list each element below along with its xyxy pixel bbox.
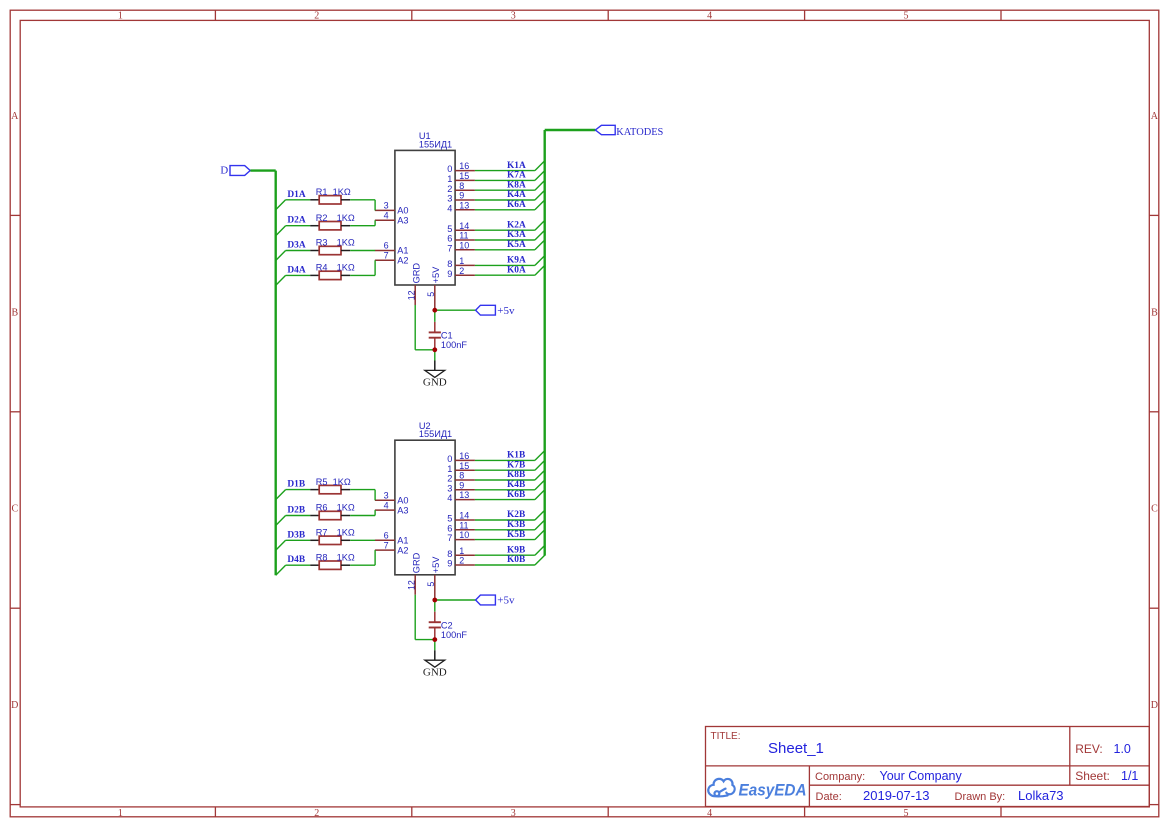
svg-text:TITLE:: TITLE: (711, 731, 741, 742)
+5v power flag near U1 (476, 305, 515, 317)
svg-text:K6B: K6B (507, 490, 525, 500)
wire net K6B to katodes bus (475, 490, 545, 500)
svg-text:3: 3 (511, 11, 516, 22)
svg-text:9: 9 (459, 480, 464, 490)
wire from R5 to pin 3 of U2 (350, 490, 375, 501)
wire net K8B to katodes bus (475, 470, 545, 480)
D bus vertical wire (275, 171, 277, 576)
svg-text:5: 5 (904, 11, 909, 22)
+5v power flag near U2 (476, 595, 515, 607)
svg-text:4: 4 (384, 211, 389, 221)
wire net K9A to katodes bus (475, 256, 545, 266)
svg-text:R7: R7 (316, 528, 328, 538)
pin 6 of U1 (A1) (375, 241, 409, 256)
junction node below capacitor C2 (432, 637, 437, 642)
svg-text:1: 1 (118, 11, 123, 22)
pin 9 of U2 (output 3), net K4B (447, 480, 475, 493)
svg-text:K6A: K6A (507, 200, 526, 210)
svg-text:D4A: D4A (287, 265, 305, 275)
svg-text:R8: R8 (316, 552, 328, 562)
junction node at +5V pin of U1 (432, 308, 437, 313)
svg-text:9: 9 (459, 191, 464, 201)
wire from R6 to pin 4 of U2 (350, 510, 375, 515)
wire net K4A to katodes bus (475, 190, 545, 200)
wire net K0B to katodes bus (475, 555, 545, 565)
pin 14 of U1 (output 5), net K2A (447, 221, 475, 234)
svg-text:5: 5 (447, 224, 452, 234)
wire from bus to resistor R1, net D1A (276, 200, 311, 210)
wire net K4B to katodes bus (475, 480, 545, 490)
svg-text:13: 13 (459, 490, 469, 500)
svg-text:K4B: K4B (507, 480, 525, 490)
pin 2 of U2 (output 9), net K0B (447, 556, 475, 569)
svg-text:1KΩ: 1KΩ (337, 238, 355, 248)
svg-text:0: 0 (447, 164, 452, 174)
svg-text:A1: A1 (397, 246, 408, 256)
svg-text:C: C (1151, 504, 1158, 515)
svg-text:155ИД1: 155ИД1 (419, 139, 452, 149)
svg-text:D: D (1151, 700, 1158, 711)
wire from bus to resistor R8, net D4B (276, 565, 311, 575)
wire GRD pin down and over to ground node (415, 595, 435, 640)
svg-text:7: 7 (447, 243, 452, 253)
pin 7 of U2 (A2) (375, 540, 409, 555)
wire net K3A to katodes bus (475, 230, 545, 240)
pin 15 of U2 (output 1), net K7B (447, 461, 475, 474)
svg-text:4: 4 (384, 500, 389, 510)
svg-text:1KΩ: 1KΩ (337, 552, 355, 562)
svg-text:8: 8 (447, 549, 452, 559)
resistor R2 1KΩ (310, 213, 355, 230)
svg-text:1KΩ: 1KΩ (337, 528, 355, 538)
svg-text:K9B: K9B (507, 545, 525, 555)
wire from bus to resistor R6, net D2B (276, 516, 311, 526)
svg-text:K1A: K1A (507, 161, 526, 171)
svg-text:K8A: K8A (507, 180, 526, 190)
wire from bus to resistor R4, net D4A (276, 275, 311, 285)
pin 14 of U2 (output 5), net K2B (447, 511, 475, 524)
wire net K1A to katodes bus (475, 161, 545, 171)
svg-text:A3: A3 (397, 505, 408, 515)
svg-text:6: 6 (447, 523, 452, 533)
svg-text:7: 7 (384, 540, 389, 550)
svg-text:1KΩ: 1KΩ (337, 263, 355, 273)
svg-text:12: 12 (406, 580, 416, 590)
pin 13 of U2 (output 4), net K6B (447, 490, 475, 503)
svg-text:16: 16 (459, 161, 469, 171)
svg-text:KATODES: KATODES (616, 127, 663, 138)
svg-text:5: 5 (447, 514, 452, 524)
svg-text:Company:: Company: (815, 771, 865, 783)
svg-text:5: 5 (426, 582, 436, 587)
svg-text:GRD: GRD (412, 263, 422, 284)
wire from bus to resistor R2, net D2A (276, 226, 311, 236)
wire from R8 to pin 7 of U2 (350, 550, 375, 565)
junction node below capacitor C1 (432, 347, 437, 352)
svg-text:A: A (1151, 111, 1159, 122)
pin 1 of U2 (output 8), net K9B (447, 546, 475, 559)
wire junction to ground symbol (434, 350, 436, 361)
svg-text:Drawn By:: Drawn By: (955, 791, 1006, 803)
svg-text:12: 12 (406, 290, 416, 300)
svg-text:R6: R6 (316, 503, 328, 513)
ground symbol GND below U2 (423, 650, 447, 678)
svg-text:K3B: K3B (507, 520, 525, 530)
svg-text:D3A: D3A (287, 241, 305, 251)
svg-text:6: 6 (384, 531, 389, 541)
IC U2 155ИД1 decoder (395, 421, 455, 575)
svg-text:K5B: K5B (507, 530, 525, 540)
svg-text:K4A: K4A (507, 190, 526, 200)
svg-text:+5v: +5v (497, 595, 515, 607)
svg-text:4: 4 (447, 203, 452, 213)
svg-text:K7B: K7B (507, 460, 525, 470)
svg-text:A0: A0 (397, 206, 408, 216)
svg-text:D1B: D1B (287, 480, 305, 490)
pin 4 of U2 (A3) (375, 500, 409, 515)
wire GRD pin down and over to ground node (415, 305, 435, 350)
svg-text:D: D (220, 165, 228, 177)
svg-text:9: 9 (447, 559, 452, 569)
pin 13 of U1 (output 4), net K6A (447, 200, 475, 213)
wire net K7B to katodes bus (475, 460, 545, 470)
wire +5V junction down to capacitor C1 (434, 310, 436, 322)
svg-text:K2B: K2B (507, 510, 525, 520)
svg-text:R4: R4 (316, 263, 328, 273)
svg-text:2: 2 (447, 184, 452, 194)
svg-text:1KΩ: 1KΩ (337, 213, 355, 223)
svg-text:D3B: D3B (287, 530, 305, 540)
pin 7 of U1 (A2) (375, 251, 409, 266)
svg-text:2: 2 (314, 808, 319, 819)
svg-text:A2: A2 (397, 545, 408, 555)
pin 10 of U2 (output 7), net K5B (447, 530, 475, 543)
svg-text:K0B: K0B (507, 555, 525, 565)
pin 5 of U2 (+5V) (426, 556, 441, 600)
svg-text:K5A: K5A (507, 240, 526, 250)
wire net K6A to katodes bus (475, 200, 545, 210)
wire from R1 to pin 3 of U1 (350, 200, 375, 211)
pin 2 of U1 (output 9), net K0A (447, 266, 475, 279)
svg-text:C: C (11, 504, 18, 515)
netflag D input port (220, 165, 250, 177)
svg-text:GND: GND (423, 666, 447, 678)
svg-text:K8B: K8B (507, 470, 525, 480)
svg-text:3: 3 (511, 808, 516, 819)
svg-text:K7A: K7A (507, 171, 526, 181)
svg-text:1KΩ: 1KΩ (333, 187, 351, 197)
resistor R3 1KΩ (310, 238, 355, 255)
svg-text:REV:: REV: (1075, 742, 1103, 756)
svg-text:2: 2 (459, 556, 464, 566)
svg-text:10: 10 (459, 240, 469, 250)
svg-text:1/1: 1/1 (1121, 769, 1138, 783)
svg-text:R1: R1 (316, 187, 328, 197)
pin 5 of U1 (+5V) (426, 266, 441, 310)
pin 15 of U1 (output 1), net K7A (447, 171, 475, 184)
svg-text:100nF: 100nF (441, 340, 467, 350)
wire +5V pin to +5v flag (435, 309, 476, 311)
svg-text:Date:: Date: (816, 791, 842, 803)
wire +5V pin to +5v flag (435, 599, 476, 601)
svg-text:1.0: 1.0 (1114, 742, 1131, 756)
svg-text:R5: R5 (316, 477, 328, 487)
svg-text:3: 3 (384, 201, 389, 211)
svg-text:Your Company: Your Company (880, 769, 963, 783)
resistor R1 1KΩ (310, 187, 351, 204)
svg-text:+5v: +5v (497, 305, 515, 317)
svg-text:+5V: +5V (431, 266, 441, 283)
ground symbol GND below U1 (423, 361, 447, 389)
pin 3 of U2 (A0) (375, 490, 409, 505)
wire net K3B to katodes bus (475, 520, 545, 530)
svg-text:5: 5 (904, 808, 909, 819)
svg-text:A0: A0 (397, 495, 408, 505)
svg-text:Sheet:: Sheet: (1075, 769, 1110, 783)
svg-text:D4B: D4B (287, 555, 305, 565)
svg-text:8: 8 (459, 181, 464, 191)
svg-text:K0A: K0A (507, 265, 526, 275)
capacitor C2 100nF (429, 612, 468, 640)
svg-text:7: 7 (384, 251, 389, 261)
svg-text:A2: A2 (397, 256, 408, 266)
svg-text:11: 11 (459, 231, 468, 241)
pin 11 of U2 (output 6), net K3B (447, 520, 475, 533)
wire net K5A to katodes bus (475, 240, 545, 250)
wire net K1B to katodes bus (475, 451, 545, 461)
wire from bus to resistor R7, net D3B (276, 540, 311, 550)
svg-text:4: 4 (447, 493, 452, 503)
svg-text:14: 14 (459, 511, 469, 521)
svg-text:6: 6 (384, 241, 389, 251)
svg-text:GRD: GRD (412, 552, 422, 573)
svg-text:2: 2 (459, 266, 464, 276)
capacitor C1 100nF (429, 322, 468, 350)
pin 6 of U2 (A1) (375, 531, 409, 546)
svg-text:D2A: D2A (287, 216, 305, 226)
katodes bus vertical wire (544, 130, 546, 556)
wire net K2A to katodes bus (475, 220, 545, 230)
pin 1 of U1 (output 8), net K9A (447, 256, 475, 269)
svg-text:+5V: +5V (431, 556, 441, 573)
svg-text:11: 11 (459, 520, 468, 530)
resistor R6 1KΩ (310, 503, 355, 520)
svg-text:8: 8 (447, 259, 452, 269)
resistor R5 1KΩ (310, 477, 351, 494)
svg-text:3: 3 (447, 194, 452, 204)
svg-text:A1: A1 (397, 536, 408, 546)
resistor R7 1KΩ (310, 528, 355, 545)
svg-text:2019-07-13: 2019-07-13 (863, 788, 930, 803)
svg-text:1KΩ: 1KΩ (337, 503, 355, 513)
wire from R3 to pin 6 of U1 (350, 250, 375, 252)
svg-text:14: 14 (459, 221, 469, 231)
netflag KATODES output port (595, 125, 663, 138)
svg-text:GND: GND (423, 377, 447, 389)
svg-text:A: A (11, 111, 19, 122)
svg-text:D: D (11, 700, 18, 711)
svg-text:4: 4 (707, 11, 712, 22)
svg-text:K1B: K1B (507, 451, 525, 461)
pin 4 of U1 (A3) (375, 211, 409, 226)
pin 10 of U1 (output 7), net K5A (447, 240, 475, 253)
wire junction to ground symbol (434, 640, 436, 651)
pin 12 of U2 (GRD) (406, 552, 421, 594)
junction node at +5V pin of U2 (432, 598, 437, 603)
svg-text:Sheet_1: Sheet_1 (768, 740, 824, 757)
svg-text:13: 13 (459, 200, 469, 210)
svg-text:155ИД1: 155ИД1 (419, 429, 452, 439)
svg-text:R2: R2 (316, 213, 328, 223)
svg-text:1KΩ: 1KΩ (333, 477, 351, 487)
svg-text:1: 1 (459, 256, 464, 266)
svg-text:15: 15 (459, 171, 469, 181)
svg-text:1: 1 (447, 464, 452, 474)
wire net K2B to katodes bus (475, 510, 545, 520)
svg-text:K3A: K3A (507, 230, 526, 240)
pin 8 of U2 (output 2), net K8B (447, 471, 475, 484)
IC U1 155ИД1 decoder (395, 131, 455, 285)
svg-text:10: 10 (459, 530, 469, 540)
wire net K9B to katodes bus (475, 545, 545, 555)
svg-text:D1A: D1A (287, 190, 305, 200)
pin 16 of U1 (output 0), net K1A (447, 161, 475, 174)
svg-text:7: 7 (447, 533, 452, 543)
resistor R4 1KΩ (310, 263, 355, 280)
svg-text:B: B (11, 307, 18, 318)
pin 11 of U1 (output 6), net K3A (447, 231, 475, 244)
wire from katodes bus to KATODES flag (545, 129, 596, 131)
pin 16 of U2 (output 0), net K1B (447, 451, 475, 464)
pin 9 of U1 (output 3), net K4A (447, 191, 475, 204)
svg-text:2: 2 (447, 474, 452, 484)
svg-text:2: 2 (314, 11, 319, 22)
wire net K7A to katodes bus (475, 171, 545, 181)
wire from R4 to pin 7 of U1 (350, 260, 375, 275)
svg-text:5: 5 (426, 292, 436, 297)
wire from D flag to D bus (250, 169, 275, 171)
svg-text:K2A: K2A (507, 220, 526, 230)
svg-text:100nF: 100nF (441, 630, 467, 640)
pin 3 of U1 (A0) (375, 201, 409, 216)
svg-text:Lolka73: Lolka73 (1018, 788, 1064, 803)
wire net K8A to katodes bus (475, 180, 545, 190)
svg-text:0: 0 (447, 454, 452, 464)
svg-text:16: 16 (459, 451, 469, 461)
svg-text:A3: A3 (397, 216, 408, 226)
wire from R7 to pin 6 of U2 (350, 539, 375, 541)
svg-text:EasyEDA: EasyEDA (739, 781, 807, 800)
svg-text:3: 3 (384, 490, 389, 500)
title block (706, 727, 1150, 807)
svg-text:1: 1 (118, 808, 123, 819)
pin 12 of U1 (GRD) (406, 263, 421, 305)
svg-text:15: 15 (459, 461, 469, 471)
wire from bus to resistor R5, net D1B (276, 490, 311, 500)
svg-text:4: 4 (707, 808, 712, 819)
svg-text:1: 1 (459, 546, 464, 556)
resistor R8 1KΩ (310, 552, 355, 569)
svg-text:6: 6 (447, 234, 452, 244)
svg-text:B: B (1151, 307, 1158, 318)
svg-text:K9A: K9A (507, 256, 526, 266)
wire from bus to resistor R3, net D3A (276, 251, 311, 261)
svg-text:1: 1 (447, 174, 452, 184)
wire from R2 to pin 4 of U1 (350, 220, 375, 225)
wire net K0A to katodes bus (475, 265, 545, 275)
svg-text:3: 3 (447, 483, 452, 493)
svg-text:9: 9 (447, 269, 452, 279)
pin 8 of U1 (output 2), net K8A (447, 181, 475, 194)
wire net K5B to katodes bus (475, 530, 545, 540)
svg-text:8: 8 (459, 471, 464, 481)
svg-text:R3: R3 (316, 238, 328, 248)
svg-text:D2B: D2B (287, 506, 305, 516)
EasyEDA logo (708, 779, 806, 800)
wire +5V junction down to capacitor C2 (434, 600, 436, 612)
